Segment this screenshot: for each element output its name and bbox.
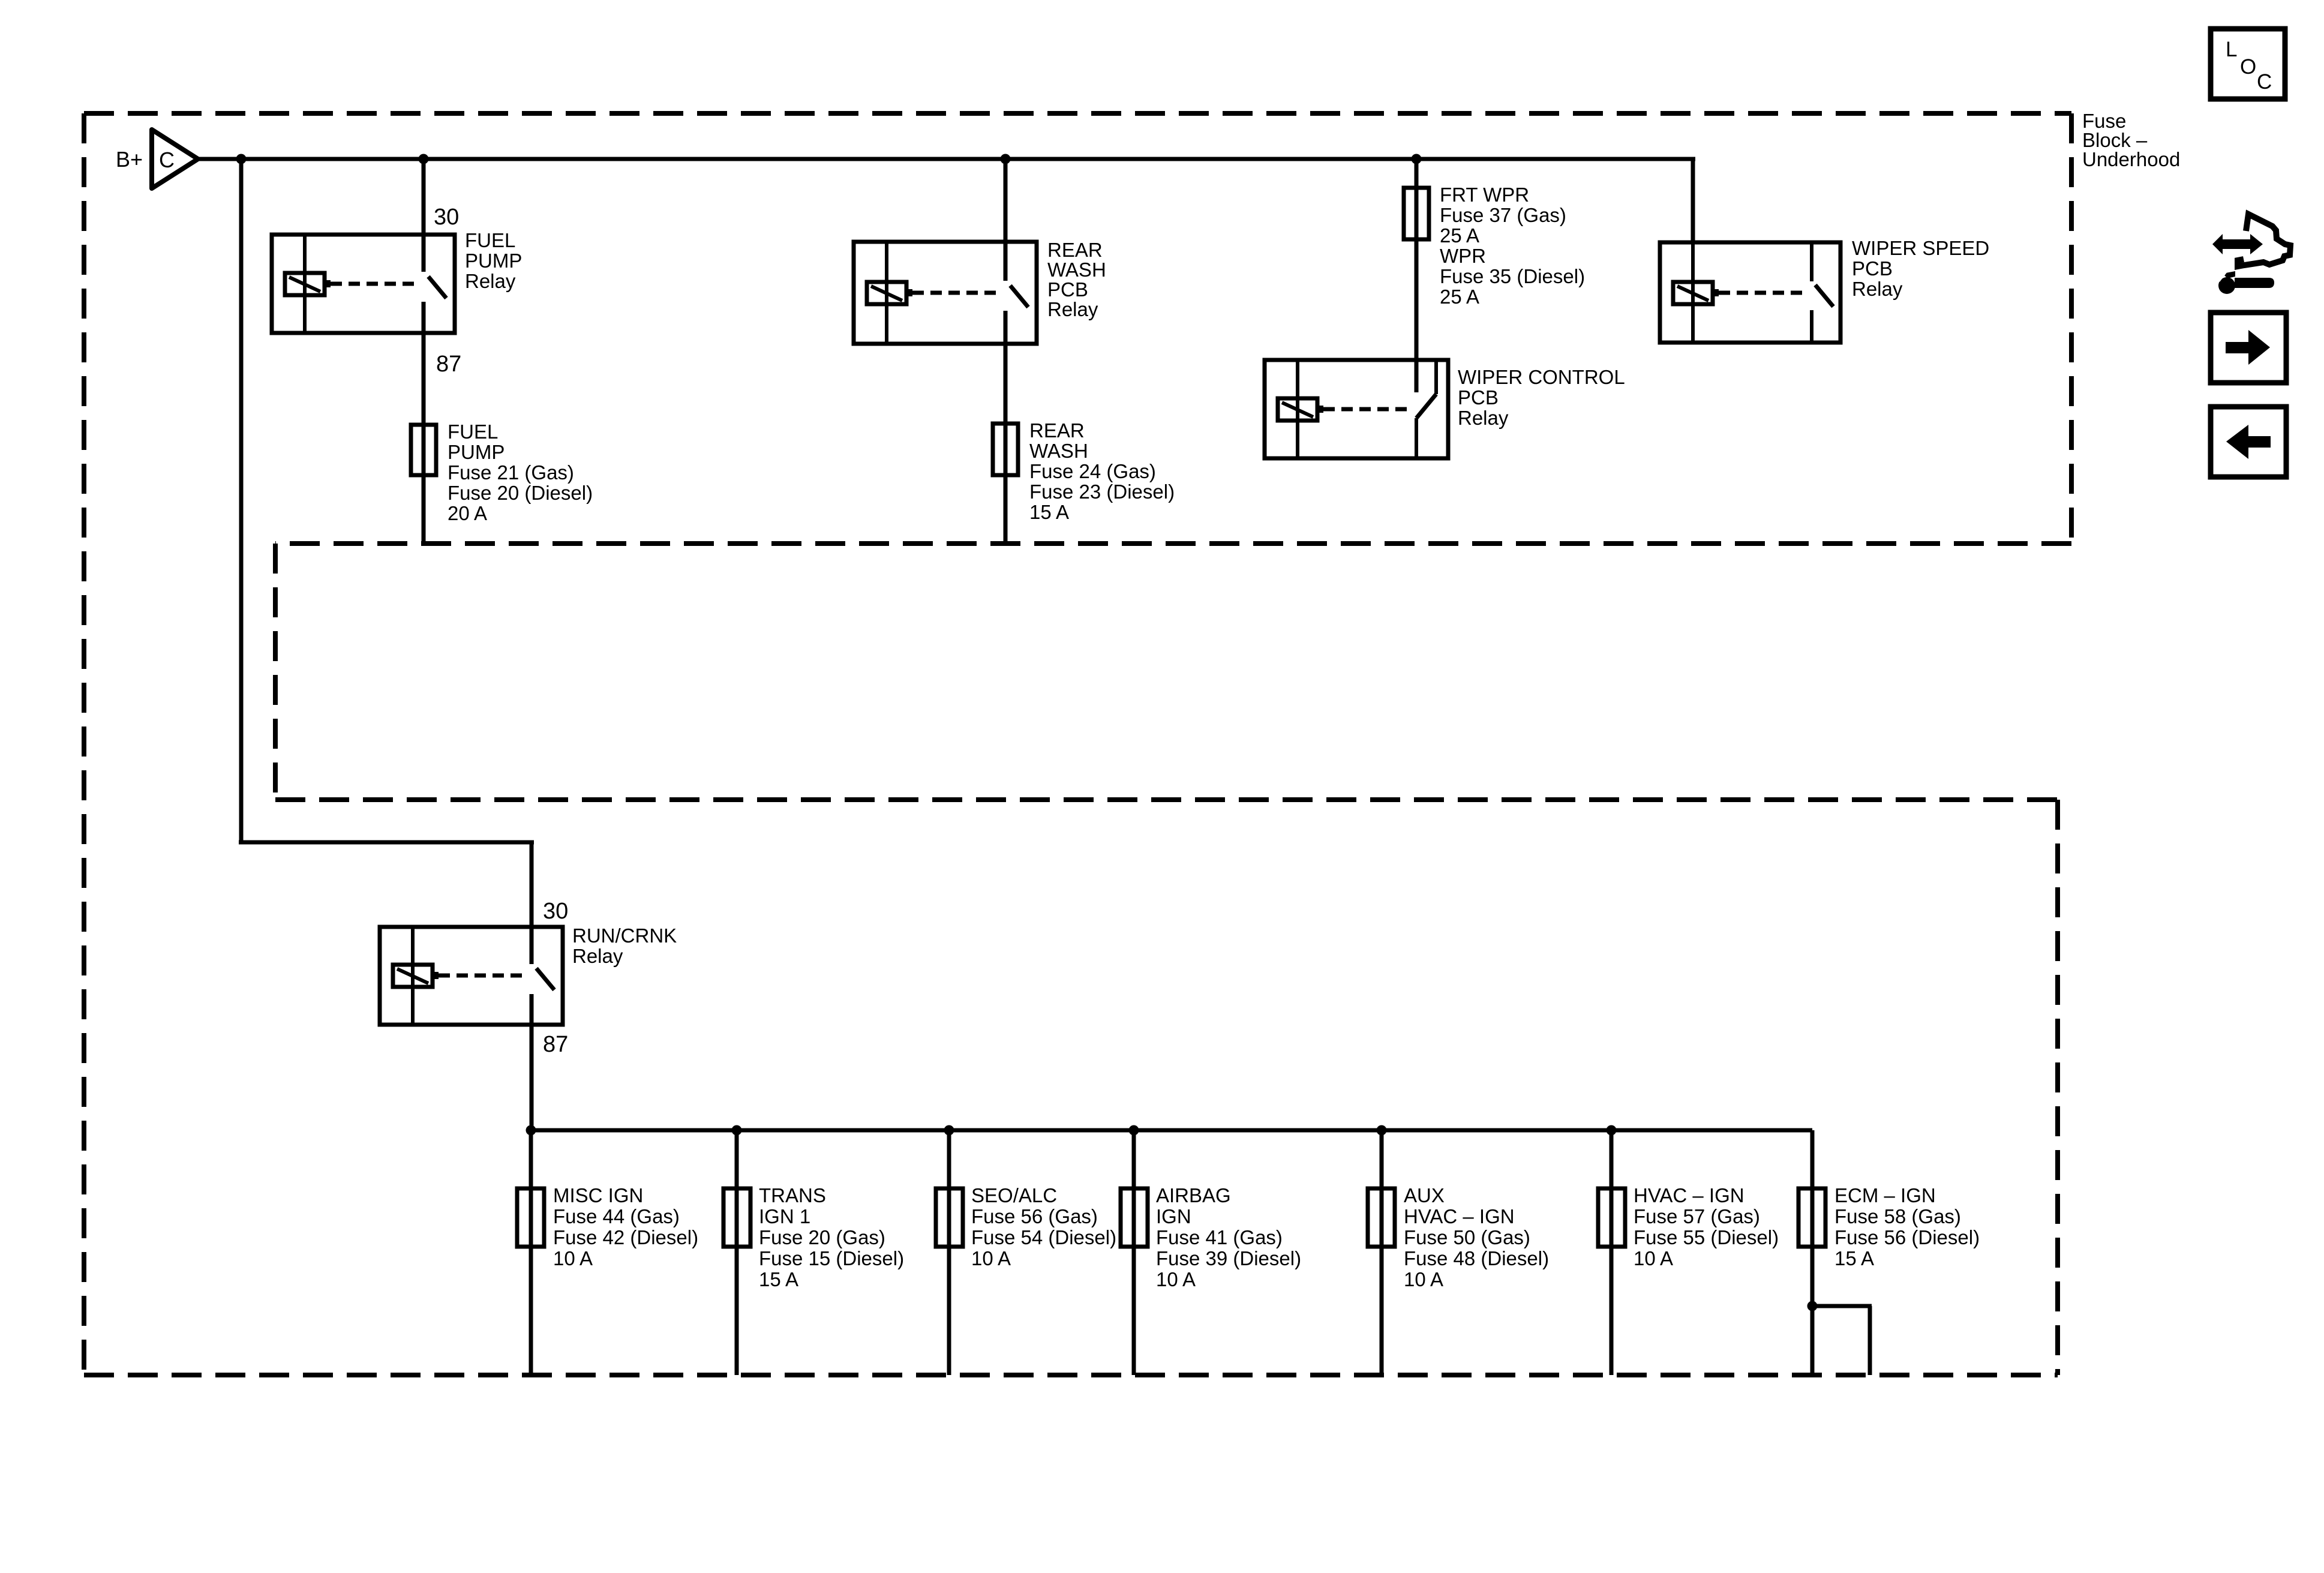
svg-text:10 A: 10 A: [553, 1247, 593, 1269]
label RUN/CRNK Relay: [572, 924, 677, 967]
wire MISC IGN branch: [529, 1130, 533, 1375]
svg-text:Fuse 35 (Diesel): Fuse 35 (Diesel): [1440, 265, 1585, 287]
wire TRANS IGN 1 branch: [735, 1130, 739, 1375]
svg-text:PCB: PCB: [1047, 278, 1088, 301]
svg-text:C: C: [159, 148, 175, 172]
svg-text:ECM – IGN: ECM – IGN: [1834, 1184, 1936, 1206]
svg-text:10 A: 10 A: [1634, 1247, 1673, 1269]
icon underhood (double arrow, hood outline, wrench): [2212, 214, 2290, 294]
svg-text:Fuse 23 (Diesel): Fuse 23 (Diesel): [1029, 481, 1175, 503]
svg-text:FRT WPR: FRT WPR: [1440, 184, 1529, 206]
svg-text:C: C: [2257, 70, 2272, 94]
svg-text:IGN: IGN: [1156, 1205, 1191, 1227]
icon LOC box: [2211, 29, 2285, 99]
pin 30 RUN/CRNK relay: [543, 899, 568, 924]
fuse MISC IGN (Fuse 44 Gas / Fuse 42 Diesel, 10 A): [517, 1188, 544, 1247]
svg-text:Fuse 39 (Diesel): Fuse 39 (Diesel): [1156, 1247, 1301, 1269]
svg-text:Fuse 55 (Diesel): Fuse 55 (Diesel): [1634, 1226, 1779, 1248]
svg-text:Relay: Relay: [572, 945, 623, 967]
wire bus to FUEL PUMP relay pin 30: [422, 159, 426, 272]
junction ignition bus / AUX HVAC: [1377, 1125, 1387, 1136]
svg-text:SEO/ALC: SEO/ALC: [971, 1184, 1057, 1206]
label AUX HVAC - IGN fuse: [1404, 1184, 1549, 1290]
svg-text:O: O: [2240, 55, 2256, 79]
svg-text:25 A: 25 A: [1440, 224, 1479, 247]
wire ECM branch jog vertical: [1868, 1306, 1872, 1375]
svg-text:10 A: 10 A: [971, 1247, 1011, 1269]
label B+: [116, 147, 143, 172]
label REAR WASH PCB Relay: [1047, 239, 1106, 320]
fuse FUEL PUMP (Fuse 21 Gas / Fuse 20 Diesel, 20 A): [411, 425, 436, 475]
svg-text:HVAC – IGN: HVAC – IGN: [1634, 1184, 1744, 1206]
svg-text:Fuse 56 (Gas): Fuse 56 (Gas): [971, 1205, 1098, 1227]
label TRANS IGN 1 fuse: [759, 1184, 904, 1290]
icon arrow right box: [2211, 313, 2286, 383]
relay RUN/CRNK: [380, 927, 563, 1025]
fuse block border bottom edge: [84, 1373, 2058, 1377]
wire AIRBAG IGN branch: [1132, 1130, 1136, 1375]
svg-text:B+: B+: [116, 147, 143, 172]
svg-text:FUEL: FUEL: [465, 229, 515, 251]
svg-text:Fuse 56 (Diesel): Fuse 56 (Diesel): [1834, 1226, 1980, 1248]
fuse REAR WASH (Fuse 24 Gas / Fuse 23 Diesel, 15 A): [993, 424, 1018, 475]
pin 87 RUN/CRNK relay: [543, 1032, 568, 1057]
wire SEO/ALC branch: [947, 1130, 951, 1375]
wire into RUN/CRNK relay pin 30: [530, 840, 534, 964]
label HVAC - IGN fuse: [1634, 1184, 1779, 1269]
B+ connector triangle C: [152, 130, 198, 188]
svg-text:WIPER CONTROL: WIPER CONTROL: [1458, 366, 1625, 388]
svg-text:30: 30: [543, 899, 568, 924]
svg-text:Fuse 24 (Gas): Fuse 24 (Gas): [1029, 460, 1156, 482]
fuse block border top edge: [84, 111, 2071, 116]
svg-text:WIPER SPEED: WIPER SPEED: [1852, 237, 1989, 259]
svg-text:MISC IGN: MISC IGN: [553, 1184, 643, 1206]
svg-text:Relay: Relay: [1458, 407, 1509, 429]
svg-text:Relay: Relay: [465, 270, 516, 292]
junction ignition bus / TRANS IGN 1: [732, 1125, 742, 1136]
svg-text:10 A: 10 A: [1404, 1268, 1443, 1290]
svg-text:87: 87: [543, 1032, 568, 1057]
svg-text:15 A: 15 A: [759, 1268, 798, 1290]
wire bus through FRT WPR fuse to WIPER CONTROL relay: [1415, 159, 1419, 392]
junction bus / REAR WASH relay: [1001, 154, 1011, 164]
fuse block border notch left edge: [273, 544, 278, 800]
junction bus / FRT WPR fuse: [1412, 154, 1422, 164]
svg-text:PUMP: PUMP: [448, 441, 505, 463]
svg-text:15 A: 15 A: [1834, 1247, 1874, 1269]
wire RUN/CRNK relay pin 87 to ignition bus: [530, 994, 534, 1130]
fuse block border right edge (lower section): [2055, 800, 2060, 1375]
junction ignition bus / AIRBAG IGN: [1129, 1125, 1139, 1136]
svg-text:WASH: WASH: [1047, 259, 1106, 281]
svg-text:TRANS: TRANS: [759, 1184, 826, 1206]
svg-text:Fuse 57 (Gas): Fuse 57 (Gas): [1634, 1205, 1760, 1227]
svg-text:10 A: 10 A: [1156, 1268, 1196, 1290]
fuse TRANS IGN 1 (Fuse 20 Gas / Fuse 15 Diesel, 15 A): [723, 1188, 750, 1247]
relay WIPER CONTROL PCB: [1265, 360, 1448, 458]
icon arrow left box: [2211, 407, 2286, 477]
label C (connector): [159, 148, 175, 172]
wire ECM IGN branch: [1810, 1130, 1815, 1375]
pin 30 FUEL PUMP relay: [434, 205, 459, 230]
wire AUX HVAC branch: [1380, 1130, 1384, 1375]
wire B+ horizontal to RUN/CRNK: [239, 840, 534, 845]
wire bus to REAR WASH relay pin 30: [1004, 159, 1008, 281]
label Fuse Block - Underhood: [2082, 110, 2180, 170]
svg-text:PCB: PCB: [1852, 257, 1893, 280]
svg-text:25 A: 25 A: [1440, 286, 1479, 308]
svg-text:HVAC – IGN: HVAC – IGN: [1404, 1205, 1515, 1227]
fuse SEO/ALC (Fuse 56 Gas / Fuse 54 Diesel, 10 A): [936, 1188, 963, 1247]
svg-text:IGN 1: IGN 1: [759, 1205, 810, 1227]
label REAR WASH fuse: [1029, 419, 1175, 523]
svg-text:Underhood: Underhood: [2082, 148, 2180, 170]
svg-text:Fuse 41 (Gas): Fuse 41 (Gas): [1156, 1226, 1283, 1248]
label SEO/ALC fuse: [971, 1184, 1116, 1269]
junction ignition bus / MISC IGN: [526, 1125, 536, 1136]
fuse block border lower-section top edge: [275, 797, 2058, 802]
wire ignition bus: [531, 1128, 1812, 1133]
label WIPER CONTROL PCB Relay: [1458, 366, 1625, 429]
fuse AUX HVAC IGN (Fuse 50 Gas / Fuse 48 Diesel, 10 A): [1368, 1188, 1395, 1247]
svg-text:Fuse 21 (Gas): Fuse 21 (Gas): [448, 461, 574, 484]
relay WIPER SPEED PCB: [1660, 242, 1840, 343]
svg-text:REAR: REAR: [1047, 239, 1103, 261]
svg-text:RUN/CRNK: RUN/CRNK: [572, 924, 677, 947]
wire HVAC IGN branch: [1610, 1130, 1614, 1375]
relay FUEL PUMP: [272, 235, 455, 333]
svg-text:30: 30: [434, 205, 459, 230]
svg-text:Fuse 20 (Diesel): Fuse 20 (Diesel): [448, 482, 593, 504]
junction ignition bus / HVAC IGN: [1607, 1125, 1617, 1136]
svg-text:Relay: Relay: [1047, 298, 1098, 320]
wire B+ drop to lower section: [239, 159, 244, 844]
junction B+ bus / drop: [236, 154, 247, 164]
junction bus / FUEL PUMP relay: [419, 154, 429, 164]
label MISC IGN fuse: [553, 1184, 698, 1269]
svg-text:FUEL: FUEL: [448, 421, 498, 443]
fuse block border left edge: [82, 113, 86, 1375]
fuse HVAC IGN (Fuse 57 Gas / Fuse 55 Diesel, 10 A): [1598, 1188, 1625, 1247]
svg-text:PUMP: PUMP: [465, 250, 522, 272]
label WIPER SPEED PCB Relay: [1852, 237, 1989, 300]
svg-text:PCB: PCB: [1458, 386, 1499, 409]
relay REAR WASH PCB: [854, 242, 1037, 344]
svg-text:Fuse 58 (Gas): Fuse 58 (Gas): [1834, 1205, 1961, 1227]
wire REAR WASH relay pin 87 through fuse to border: [1004, 311, 1008, 544]
fuse block border upper-section bottom edge: [275, 541, 2071, 546]
svg-text:AUX: AUX: [1404, 1184, 1445, 1206]
svg-text:Relay: Relay: [1852, 278, 1903, 300]
label FUEL PUMP Relay: [465, 229, 522, 292]
label FUEL PUMP fuse: [448, 421, 593, 524]
svg-text:REAR: REAR: [1029, 419, 1085, 442]
svg-text:20 A: 20 A: [448, 502, 487, 524]
fuse AIRBAG IGN (Fuse 41 Gas / Fuse 39 Diesel, 10 A): [1121, 1188, 1148, 1247]
svg-text:Fuse 44 (Gas): Fuse 44 (Gas): [553, 1205, 680, 1227]
svg-text:Fuse 50 (Gas): Fuse 50 (Gas): [1404, 1226, 1530, 1248]
junction ECM IGN jog: [1807, 1301, 1818, 1311]
fuse block border right edge (upper section): [2069, 113, 2074, 544]
fuse ECM IGN (Fuse 58 Gas / Fuse 56 Diesel, 15 A): [1798, 1188, 1825, 1247]
svg-text:Fuse 54 (Diesel): Fuse 54 (Diesel): [971, 1226, 1116, 1248]
label ECM - IGN fuse: [1834, 1184, 1980, 1269]
wire B+ top bus: [198, 157, 1695, 161]
svg-text:Fuse 48 (Diesel): Fuse 48 (Diesel): [1404, 1247, 1549, 1269]
svg-text:Fuse 20 (Gas): Fuse 20 (Gas): [759, 1226, 885, 1248]
svg-text:Fuse 42 (Diesel): Fuse 42 (Diesel): [553, 1226, 698, 1248]
pin 87 FUEL PUMP relay: [436, 352, 461, 377]
svg-text:87: 87: [436, 352, 461, 377]
svg-text:AIRBAG: AIRBAG: [1156, 1184, 1231, 1206]
svg-text:15 A: 15 A: [1029, 501, 1069, 523]
wire bus to WIPER SPEED relay coil: [1691, 157, 1695, 242]
label FRT WPR / WPR fuse: [1440, 184, 1585, 308]
svg-text:Fuse 37 (Gas): Fuse 37 (Gas): [1440, 204, 1566, 226]
junction ignition bus / SEO/ALC: [944, 1125, 954, 1136]
label AIRBAG IGN fuse: [1156, 1184, 1301, 1290]
svg-text:L: L: [2226, 38, 2237, 61]
svg-text:WPR: WPR: [1440, 245, 1486, 267]
wire ECM branch jog horizontal: [1812, 1304, 1872, 1308]
wire FUEL PUMP relay pin 87 through fuse to border: [422, 302, 426, 544]
svg-text:Fuse 15 (Diesel): Fuse 15 (Diesel): [759, 1247, 904, 1269]
fuse FRT WPR / WPR (Fuse 37 Gas / Fuse 35 Diesel, 25 A): [1404, 188, 1429, 239]
svg-text:WASH: WASH: [1029, 440, 1088, 462]
